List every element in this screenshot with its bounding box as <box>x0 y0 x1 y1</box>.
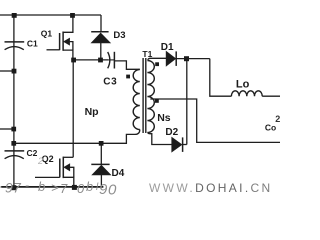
diode D3 <box>91 15 110 60</box>
svg-text:D1: D1 <box>161 42 174 53</box>
wire to output inductor <box>210 59 232 97</box>
wire top rail <box>0 14 101 16</box>
wire secondary bottom lead <box>148 133 173 145</box>
svg-text:7: 7 <box>60 181 68 196</box>
diode D2 <box>172 137 187 152</box>
transformer T1 secondary winding Ns <box>147 61 154 133</box>
svg-text:Ns: Ns <box>157 112 171 124</box>
polarity dot secondary top <box>155 62 159 66</box>
polarity dot primary <box>126 75 130 79</box>
wire input stub upper <box>0 70 14 72</box>
node bottom rail left <box>11 185 16 190</box>
wire D1/D2 cathode link <box>186 59 188 145</box>
node top rail / Q1 drain <box>70 13 75 18</box>
transformer core <box>142 58 144 133</box>
svg-text:0: 0 <box>108 182 117 199</box>
wire left vertical rail <box>13 15 15 187</box>
capacitor C1 <box>5 42 25 50</box>
svg-text:Lo: Lo <box>236 78 250 90</box>
transistor Q2 <box>35 157 74 187</box>
svg-text:WWW.DOHAI.CN: WWW.DOHAI.CN <box>149 181 273 195</box>
wire secondary top lead <box>148 58 167 60</box>
capacitor C2 <box>5 151 25 159</box>
watermark www.dohai.cn <box>149 181 273 195</box>
node cap midpoint <box>11 141 16 146</box>
svg-text:9: 9 <box>5 180 13 196</box>
node input upper <box>12 69 17 74</box>
svg-text:b: b <box>86 179 93 194</box>
svg-text:-: - <box>25 178 29 192</box>
svg-text:b: b <box>38 179 45 194</box>
svg-text:Q2: Q2 <box>42 154 54 164</box>
node D1 cathode <box>184 56 189 61</box>
svg-text:7: 7 <box>13 180 22 196</box>
wire primary bottom return <box>14 130 140 144</box>
node Q1 source <box>71 58 76 63</box>
node D3 anode <box>98 58 103 63</box>
svg-text:2: 2 <box>37 156 43 166</box>
svg-text:2: 2 <box>275 114 280 124</box>
node top rail / C1 <box>12 13 17 18</box>
svg-text:D4: D4 <box>112 168 125 179</box>
svg-text:C1: C1 <box>27 38 38 48</box>
node Q2 source <box>72 185 77 190</box>
wire Q1 source to Q2 drain <box>72 60 74 157</box>
diode D1 <box>166 51 210 66</box>
wire input stub lower <box>0 128 14 130</box>
svg-text:Co: Co <box>265 123 276 133</box>
node D4 top <box>99 141 104 146</box>
capacitor C3 <box>108 52 140 70</box>
svg-text:>: > <box>51 180 59 195</box>
node input lower <box>11 127 16 132</box>
svg-text:Q1: Q1 <box>41 29 53 39</box>
diode D4 <box>91 143 110 187</box>
svg-text:T1: T1 <box>142 49 152 59</box>
svg-text:D2: D2 <box>165 127 178 138</box>
svg-text:C3: C3 <box>103 77 117 88</box>
wire center tap <box>150 99 280 142</box>
svg-text:-: - <box>0 179 2 193</box>
svg-text:C2: C2 <box>27 148 38 158</box>
wire switch-node horizontal y60 <box>73 59 108 61</box>
svg-text:9: 9 <box>99 181 108 198</box>
polarity dot secondary mid <box>155 99 159 103</box>
svg-text:Np: Np <box>85 106 99 118</box>
wire output top <box>262 95 280 97</box>
transformer T1 primary winding Np <box>133 70 140 130</box>
inductor Lo <box>231 91 262 96</box>
transistor Q1 <box>47 15 73 60</box>
wire bottom rail <box>1 186 103 188</box>
svg-text:D3: D3 <box>113 30 125 41</box>
svg-text:0: 0 <box>77 181 85 196</box>
